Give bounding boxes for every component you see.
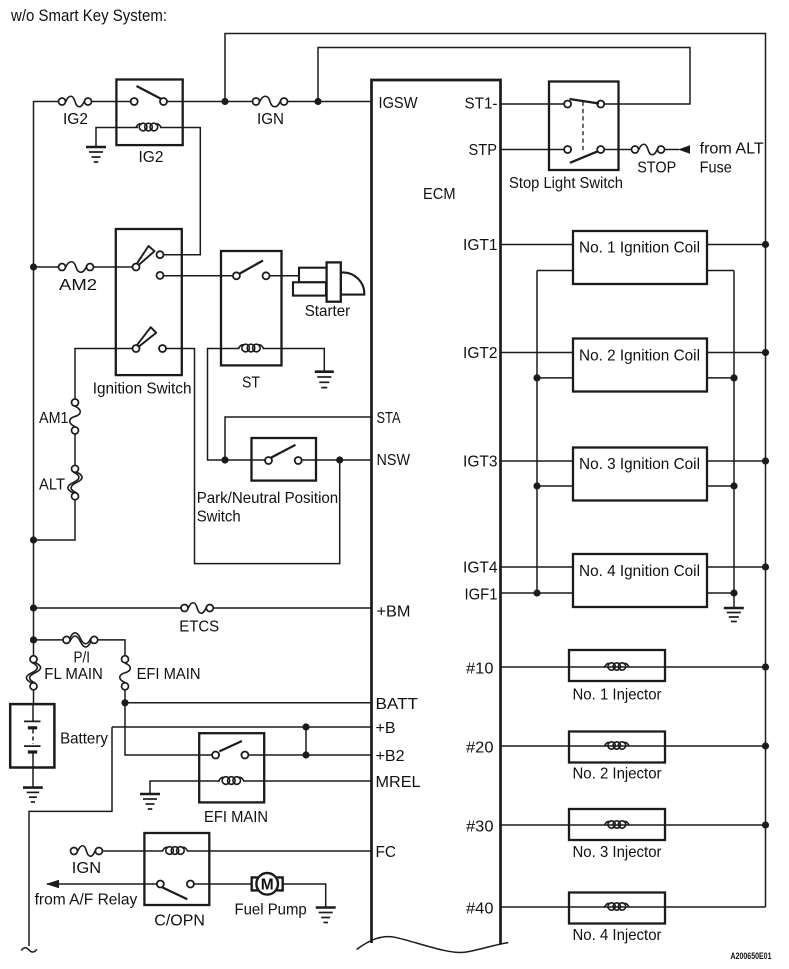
svg-text:Park/Neutral Position: Park/Neutral Position [197,490,339,507]
svg-text:A200650E01: A200650E01 [731,951,772,961]
svg-text:No. 3 Injector: No. 3 Injector [573,844,663,861]
svg-text:#40: #40 [466,901,494,918]
svg-text:C/OPN: C/OPN [154,913,205,930]
svg-text:Fuse: Fuse [700,160,732,177]
svg-text:#30: #30 [466,819,494,836]
svg-text:ST1-: ST1- [465,96,498,113]
svg-text:No. 1 Ignition Coil: No. 1 Ignition Coil [579,240,700,257]
svg-text:IGF1: IGF1 [465,586,498,603]
svg-text:IGT1: IGT1 [463,237,498,254]
svg-text:P/I: P/I [74,650,91,667]
svg-text:Fuel Pump: Fuel Pump [235,902,307,919]
svg-text:ETCS: ETCS [179,619,219,636]
svg-text:STOP: STOP [637,160,676,177]
svg-text:+BM: +BM [377,604,411,621]
svg-text:EFI MAIN: EFI MAIN [204,809,268,826]
svg-text:ECM: ECM [423,186,456,203]
svg-text:No. 2 Ignition Coil: No. 2 Ignition Coil [579,348,700,365]
svg-text:STA: STA [377,410,401,427]
svg-text:#20: #20 [466,740,494,757]
svg-text:+B2: +B2 [376,748,405,765]
svg-text:from A/F Relay: from A/F Relay [35,892,138,909]
svg-text:No. 4 Ignition Coil: No. 4 Ignition Coil [579,563,700,580]
svg-text:IGN: IGN [72,860,101,877]
svg-text:IGT2: IGT2 [463,345,498,362]
svg-text:Starter: Starter [305,303,351,320]
svg-text:FC: FC [376,844,397,861]
svg-text:FL MAIN: FL MAIN [44,666,103,683]
svg-text:IGT3: IGT3 [463,454,498,471]
svg-text:from ALT: from ALT [700,141,764,158]
svg-text:Stop Light Switch: Stop Light Switch [509,175,623,192]
svg-text:+B: +B [376,720,396,737]
svg-text:IG2: IG2 [63,111,88,128]
svg-text:w/o Smart Key System:: w/o Smart Key System: [10,7,167,25]
svg-text:#10: #10 [466,661,494,678]
svg-text:No. 1 Injector: No. 1 Injector [573,687,663,704]
svg-text:STP: STP [469,142,498,159]
svg-text:BATT: BATT [376,696,419,713]
svg-text:NSW: NSW [377,452,411,469]
svg-text:MREL: MREL [376,774,421,791]
svg-text:AM1: AM1 [39,410,69,427]
svg-text:IGT4: IGT4 [463,559,498,576]
svg-text:ST: ST [242,375,260,392]
svg-text:Battery: Battery [60,731,108,748]
svg-text:EFI MAIN: EFI MAIN [137,666,201,683]
svg-text:IGN: IGN [257,111,284,128]
svg-text:M: M [261,877,274,894]
svg-text:Switch: Switch [197,509,241,526]
svg-text:AM2: AM2 [59,277,97,294]
svg-text:IGSW: IGSW [379,95,419,112]
svg-text:No. 2 Injector: No. 2 Injector [573,766,663,783]
svg-text:IG2: IG2 [139,149,164,166]
svg-text:No. 3 Ignition Coil: No. 3 Ignition Coil [579,456,700,473]
svg-text:Ignition Switch: Ignition Switch [93,381,192,398]
svg-text:No. 4 Injector: No. 4 Injector [573,927,663,944]
svg-text:ALT: ALT [39,477,65,494]
